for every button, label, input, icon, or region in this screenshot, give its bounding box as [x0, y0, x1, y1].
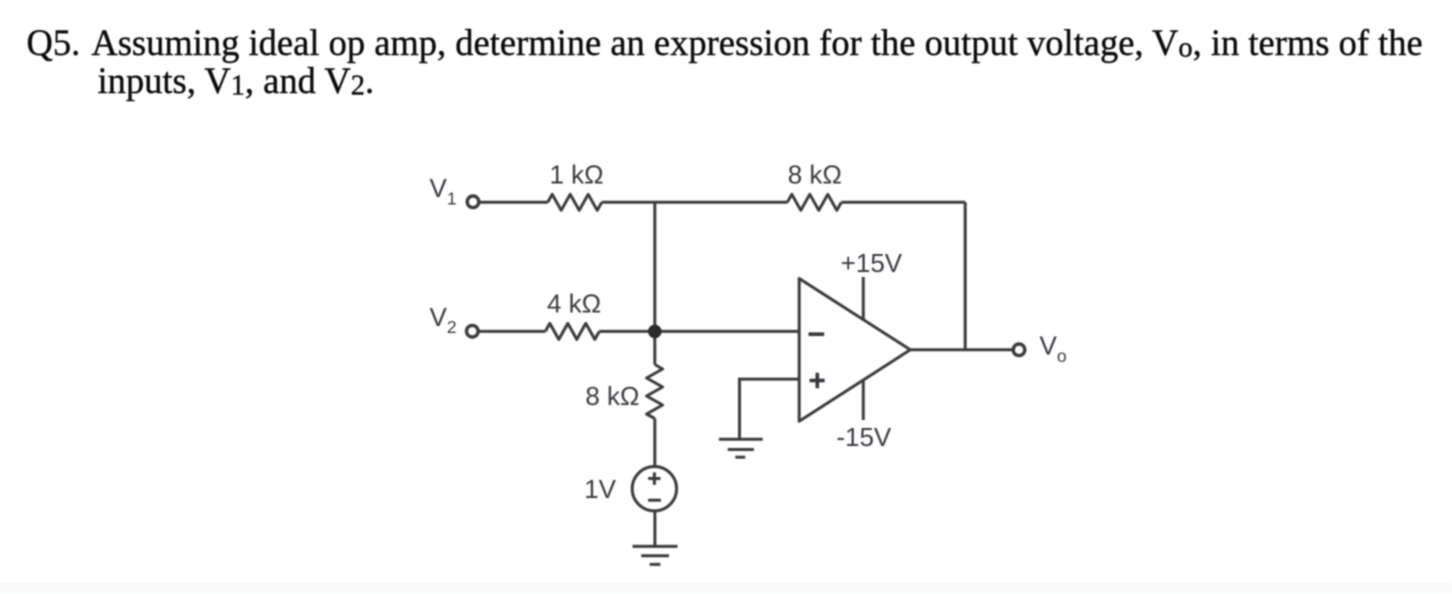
svg-text:8 kΩ: 8 kΩ [585, 381, 639, 411]
svg-text:-15V: -15V [836, 422, 892, 452]
resistor R4 8k vertical zigzag [647, 365, 663, 419]
terminal Vo circle [1013, 344, 1025, 356]
wire -15V supply pin [862, 380, 865, 420]
ground G2 [719, 439, 763, 457]
ground G1 [633, 546, 678, 564]
bottom strip [0, 583, 1452, 594]
resistor R1 1k zigzag [548, 194, 602, 210]
source plus minus marks [648, 472, 661, 500]
question text line 1 [27, 21, 1423, 64]
resistor R2 8k zigzag [787, 194, 841, 210]
svg-text:1 kΩ: 1 kΩ [549, 160, 603, 190]
svg-text:8 kΩ: 8 kΩ [788, 160, 842, 190]
question text line 2 [98, 59, 375, 102]
wire R2 to feedback corner [841, 201, 965, 204]
wire V1 terminal to R1 [479, 201, 548, 204]
op-amp U1 triangle [799, 279, 910, 422]
svg-text:4 kΩ: 4 kΩ [547, 289, 601, 319]
wire junction down to R4 [653, 331, 656, 364]
wire node drop from top row [653, 202, 656, 331]
junction node dot [648, 325, 662, 339]
source V3 1V circle [632, 467, 676, 511]
svg-text:Vo: Vo [1040, 331, 1067, 366]
wire V2 terminal to R3 [478, 330, 545, 333]
wire plus input [740, 379, 800, 439]
op-amp plus symbol [810, 373, 825, 388]
svg-text:V2: V2 [430, 302, 457, 337]
svg-text:V1: V1 [430, 173, 457, 208]
terminal V1 circle [467, 196, 479, 208]
wire R1 to R2 [602, 201, 788, 204]
resistor R3 4k zigzag [545, 323, 599, 339]
svg-text:1V: 1V [584, 474, 616, 504]
wire feedback vertical [964, 202, 967, 349]
wire op-amp output [910, 348, 1013, 351]
wire R4 to source V3 [653, 419, 656, 467]
svg-text:+15V: +15V [841, 248, 903, 278]
op-amp minus symbol [809, 332, 825, 336]
wire +15V supply pin [862, 277, 865, 320]
wire R3 to op-amp minus input [599, 330, 799, 333]
terminal V2 circle [467, 325, 479, 337]
wire source to ground [653, 511, 656, 547]
